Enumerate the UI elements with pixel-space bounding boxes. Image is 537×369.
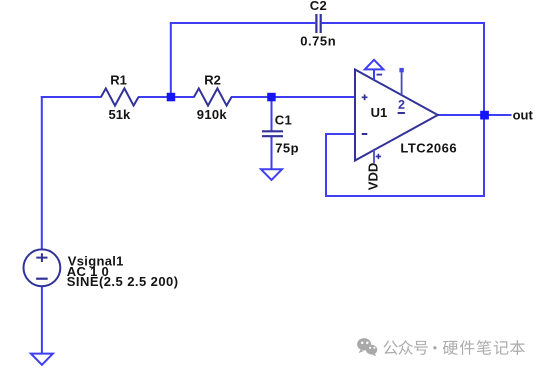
op-amp V- pin stub	[373, 150, 375, 163]
svg-text:C1: C1	[275, 112, 292, 127]
op-amp V+ pin minus label	[377, 74, 383, 76]
op-amp V+ pin arrow	[365, 60, 384, 80]
svg-text:VDD: VDD	[365, 163, 380, 190]
watermark char 记	[494, 341, 509, 355]
svg-text:75p: 75p	[275, 140, 299, 155]
watermark char 本	[510, 340, 525, 355]
wire: R1 to R2 through node A	[138, 96, 195, 98]
watermark wechat icon small bubble	[366, 345, 377, 355]
wire: R2 to op-amp + input through node B	[231, 96, 355, 98]
wire: vertical from node A up to top feedback	[170, 23, 172, 97]
capacitor C1 plates	[262, 131, 283, 136]
ground below voltage source	[31, 354, 53, 365]
svg-text:51k: 51k	[109, 107, 131, 122]
op-amp EN pin underline	[398, 112, 405, 114]
wire: C1 bottom stub	[271, 137, 273, 170]
ground below C1	[261, 169, 282, 180]
node out junction	[480, 111, 489, 120]
voltage source plus sign	[36, 253, 47, 262]
watermark char 笔	[477, 340, 492, 355]
watermark wechat icon small bubble eyes	[369, 347, 375, 349]
wire: feedback to inverting input	[325, 133, 355, 135]
wire: bottom feedback horizontal	[326, 195, 485, 197]
wire: source bottom to ground	[41, 286, 43, 354]
watermark char 件	[460, 340, 475, 355]
watermark wechat icon big bubble	[357, 338, 371, 353]
op-amp EN pin dot	[399, 68, 403, 72]
svg-text:R2: R2	[204, 72, 221, 87]
wire: top feedback horizontal, left of C2	[170, 22, 315, 24]
op-amp noninverting + marker	[362, 94, 368, 100]
wire: op-amp output to out label	[438, 114, 512, 116]
wire: feedback left vertical	[325, 134, 327, 197]
op-amp inverting - marker	[362, 133, 368, 135]
svg-text:U1: U1	[371, 105, 388, 120]
svg-text:LTC2066: LTC2066	[400, 140, 457, 155]
watermark separator dot	[433, 346, 436, 349]
node B junction (R2/C1)	[267, 93, 276, 102]
wire: left vertical down to source	[41, 96, 43, 250]
watermark char 号	[414, 341, 428, 355]
svg-text:C2: C2	[310, 0, 327, 13]
capacitor C2 plates	[316, 14, 320, 33]
wire: input node to R1	[41, 96, 102, 98]
watermark char 硬	[443, 341, 458, 355]
voltage source V1 circle	[24, 249, 61, 286]
wire: C1 top stub	[271, 97, 273, 131]
watermark wechat icon big bubble eyes	[361, 342, 369, 345]
op-amp EN pin stub	[401, 72, 403, 95]
resistor R2	[194, 88, 232, 105]
node A junction (R1/R2/feedback)	[167, 93, 176, 102]
wire: top feedback horizontal, right of C2	[322, 22, 485, 24]
watermark wechat icon small bubble tail	[372, 353, 376, 356]
svg-text:0.75n: 0.75n	[300, 34, 336, 49]
resistor R1	[101, 88, 139, 105]
svg-text:SINE(2.5 2.5 200): SINE(2.5 2.5 200)	[67, 274, 179, 289]
voltage source minus sign	[36, 278, 48, 280]
op-amp EN pin number 2	[398, 100, 404, 109]
wire: right vertical from top feedback down to bottom feedback	[483, 22, 485, 197]
op-amp V- pin plus label	[376, 154, 381, 159]
svg-text:R1: R1	[110, 72, 127, 87]
op-amp U1 triangle	[355, 70, 438, 161]
svg-text:910k: 910k	[197, 107, 228, 122]
watermark char 众	[398, 340, 413, 355]
watermark char 公	[383, 340, 398, 354]
svg-text:out: out	[513, 108, 534, 123]
